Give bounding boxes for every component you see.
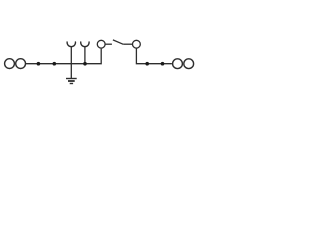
wire: stub from left contact xyxy=(105,43,112,45)
disconnect knife lever (open) xyxy=(113,40,123,44)
terminal circle T2 (left inner) xyxy=(16,59,26,69)
junction dot J1 xyxy=(37,62,41,66)
junction dot J3 (fork F2 to bus) xyxy=(83,62,87,66)
wire: fork F2 stem xyxy=(84,46,86,63)
junction dot J5 xyxy=(161,62,165,66)
junction dot J2 xyxy=(53,62,57,66)
disconnect switch left contact circle xyxy=(97,40,105,48)
test socket fork F1 xyxy=(67,41,75,46)
junction dot J4 xyxy=(145,62,149,66)
wire: stub to right contact xyxy=(123,43,132,45)
terminal circle T1 (left outer) xyxy=(5,59,15,69)
terminal circle T3 (right inner) xyxy=(173,59,183,69)
test socket fork F2 xyxy=(81,41,89,46)
wire: fork F1 stem / ground tap (crosses bus) xyxy=(70,46,72,78)
ground (earth) symbol xyxy=(66,79,77,84)
wire: left bus with riser to disconnect xyxy=(26,49,101,64)
disconnect switch right contact circle xyxy=(133,40,141,48)
terminal circle T4 (right outer) xyxy=(184,59,194,69)
wire: right riser and right bus xyxy=(136,48,172,64)
